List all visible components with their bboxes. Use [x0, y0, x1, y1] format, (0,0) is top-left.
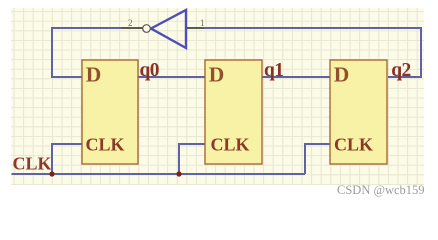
svg-text:CLK: CLK — [334, 135, 373, 155]
svg-text:CLK: CLK — [13, 154, 52, 174]
svg-text:D: D — [209, 63, 225, 87]
svg-text:D: D — [334, 63, 350, 87]
svg-text:1: 1 — [200, 18, 205, 28]
svg-text:CLK: CLK — [86, 135, 125, 155]
svg-text:q0: q0 — [140, 60, 159, 81]
svg-text:q2: q2 — [391, 60, 410, 81]
svg-text:q1: q1 — [264, 60, 283, 81]
svg-text:D: D — [86, 63, 102, 87]
svg-text:CSDN @wcb159: CSDN @wcb159 — [337, 183, 425, 197]
svg-text:CLK: CLK — [211, 135, 250, 155]
svg-text:2: 2 — [128, 18, 133, 28]
